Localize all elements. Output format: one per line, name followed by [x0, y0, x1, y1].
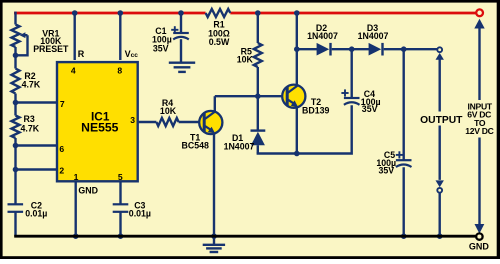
- wire output terminal to ground bus: [439, 193, 441, 237]
- wire R3 to C2: [14, 138, 16, 204]
- wire +V rail to R5: [257, 13, 259, 43]
- svg-text:6: 6: [59, 144, 64, 154]
- junction R5 on +V rail: [255, 10, 261, 16]
- svg-text:12V DC: 12V DC: [465, 126, 493, 136]
- +V input terminal (red): [476, 9, 483, 16]
- svg-text:5: 5: [118, 172, 123, 182]
- ground symbol below bus (T1 emitter): [203, 245, 225, 252]
- wire R4 to T1 base: [179, 121, 200, 123]
- svg-text:BD139: BD139: [302, 105, 329, 115]
- GND input terminal: [476, 233, 482, 239]
- wire diode line to C5: [403, 49, 405, 160]
- wire C1 to ground symbol: [180, 39, 182, 63]
- junction T2 collector on +V rail: [294, 10, 300, 16]
- GND label: [469, 242, 490, 252]
- wire IC pin 4 to +V rail: [73, 13, 75, 60]
- transistor T1 BC548: [182, 111, 223, 150]
- svg-text:0.01µ: 0.01µ: [25, 209, 47, 219]
- resistor R4 10K: [156, 98, 178, 126]
- wire IC pin 5 to C3: [119, 181, 121, 204]
- +V rail (red) left segment: [14, 12, 206, 15]
- potentiometer VR1 100K preset: [12, 25, 70, 56]
- pin 4 label: [71, 65, 76, 75]
- svg-text:1N4007: 1N4007: [358, 31, 389, 41]
- pin 2 label: [59, 166, 64, 176]
- wire D2 to D3: [332, 48, 369, 50]
- svg-text:GND: GND: [469, 242, 490, 252]
- junction output on bus: [437, 233, 443, 239]
- wire C5 to ground bus: [403, 167, 405, 236]
- svg-text:35V: 35V: [378, 166, 394, 176]
- diode D3 1N4007: [358, 23, 389, 56]
- wire T1 emitter down to ground: [213, 133, 215, 245]
- svg-text:35V: 35V: [362, 104, 378, 114]
- wire C2 to ground bus: [14, 212, 16, 236]
- svg-text:1N4007: 1N4007: [307, 31, 338, 41]
- wire R2 to R3: [14, 94, 16, 116]
- ground bus (black): [14, 235, 476, 238]
- diode D2 1N4007: [307, 23, 338, 56]
- junction pin 1 on bus: [73, 233, 79, 239]
- wire node to IC pin 6: [16, 144, 58, 146]
- junction to pin 6: [13, 143, 19, 149]
- transistor T2 BD139: [282, 85, 329, 116]
- svg-text:GND: GND: [78, 186, 98, 196]
- resistor R5 10K: [237, 43, 262, 67]
- junction pin 4 on rail: [72, 10, 78, 16]
- op-amp/timer IC1 NE555: [57, 62, 138, 181]
- svg-text:2: 2: [59, 166, 64, 176]
- ground symbol below C1: [169, 63, 195, 72]
- input - arrow: [475, 138, 485, 234]
- junction pin 8 on rail: [118, 10, 124, 16]
- wire +V rail to C1: [180, 13, 182, 33]
- junction T1 emitter on bus: [211, 233, 217, 239]
- svg-text:10K: 10K: [160, 106, 177, 116]
- pin 7 label: [60, 99, 65, 109]
- capacitor C4 100µ 35V: [341, 89, 380, 114]
- junction C5 on bus: [401, 233, 407, 239]
- diode D1 1N4007: [224, 96, 266, 153]
- wire VR1 to R2: [14, 47, 16, 69]
- INPUT label: [463, 100, 496, 137]
- wire T1 collector up: [214, 96, 216, 112]
- capacitor C5 100µ 35V: [376, 150, 411, 176]
- IC GND label: [78, 186, 98, 196]
- svg-text:10K: 10K: [237, 54, 254, 64]
- svg-text:1N4007: 1N4007: [224, 141, 255, 151]
- wire T2 collector branch to D2: [297, 48, 317, 50]
- wire node to IC pin 2: [16, 168, 58, 170]
- svg-text:0.01µ: 0.01µ: [129, 209, 151, 219]
- +V rail (red) right segment: [230, 12, 476, 15]
- pin 8 label: [117, 65, 122, 75]
- junction D2 branch on T2 collector: [294, 46, 300, 52]
- svg-text:7: 7: [60, 99, 65, 109]
- junction C1 on +V rail: [178, 10, 184, 16]
- junction T2 emitter on emitter net: [294, 151, 300, 157]
- svg-text:8: 8: [117, 65, 122, 75]
- capacitor C2 0.01µ: [8, 201, 48, 219]
- svg-text:NE555: NE555: [81, 120, 118, 134]
- junction C3 on bus: [118, 233, 124, 239]
- svg-text:4.7K: 4.7K: [21, 123, 40, 133]
- junction to pin 2: [13, 167, 19, 173]
- junction C4 on diode line: [349, 46, 355, 52]
- junction R2/R3 to pin 7: [13, 100, 19, 106]
- resistor R1 100Ω 0.5W: [206, 9, 231, 47]
- wire diode line to C4: [351, 49, 353, 98]
- wire D1 anode to C4 bottom (emitter net): [258, 105, 352, 153]
- junction VR1 wiper / R2 top: [13, 53, 19, 59]
- pin 1 label: [74, 172, 79, 182]
- wire node to IC pin 7: [16, 101, 58, 103]
- resistor R3 4.7K: [12, 114, 40, 138]
- svg-text:1: 1: [74, 172, 79, 182]
- svg-text:BC548: BC548: [182, 140, 209, 150]
- input + arrow: [474, 19, 484, 100]
- pin R (reset) label: [78, 49, 85, 59]
- svg-text:R: R: [78, 49, 85, 59]
- pin Vcc label: [125, 49, 139, 59]
- pin 5 label: [118, 172, 123, 182]
- resistor R2 4.7K: [12, 69, 41, 94]
- output terminals with arrows: [436, 47, 444, 192]
- node A junction (R5/D1/T1 collector/T2 base): [255, 93, 261, 99]
- svg-text:35V: 35V: [153, 43, 169, 53]
- left rail wire (top, +V to VR1): [14, 12, 16, 25]
- wire T1 collector to T2 base: [215, 95, 283, 97]
- wire T2 collector to +V rail: [296, 13, 298, 86]
- svg-text:4.7K: 4.7K: [22, 80, 41, 90]
- OUTPUT label: [419, 112, 464, 127]
- wire R5 to node A: [257, 67, 259, 96]
- wire T2 emitter down: [296, 106, 298, 153]
- junction C5 on diode line: [401, 46, 407, 52]
- capacitor C1 100µ 35V: [152, 26, 189, 53]
- wire IC pin 8 to +V rail: [119, 13, 121, 60]
- svg-text:0.5W: 0.5W: [209, 37, 230, 47]
- capacitor C3 0.01µ: [113, 201, 151, 219]
- wire IC pin 3 to R4: [137, 121, 156, 123]
- svg-text:4: 4: [71, 65, 76, 75]
- wire IC pin 1 to ground bus: [74, 181, 76, 236]
- svg-text:PRESET: PRESET: [33, 44, 69, 54]
- wire D3 to output terminal: [384, 48, 438, 50]
- svg-text:3: 3: [130, 115, 135, 125]
- pin 6 label: [59, 144, 64, 154]
- wire C3 to ground bus: [119, 212, 121, 236]
- pin 3 label: [130, 115, 135, 125]
- svg-text:OUTPUT: OUTPUT: [420, 115, 463, 126]
